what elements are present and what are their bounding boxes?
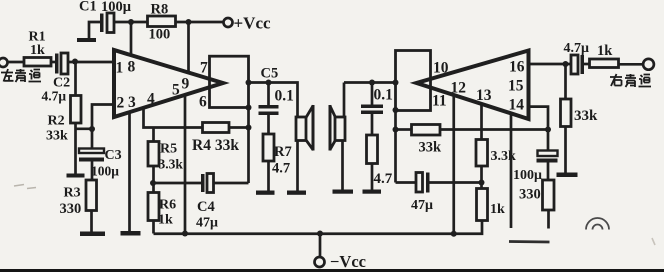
label right channel (Chinese) (610, 74, 651, 87)
svg-text:330: 330 (60, 201, 82, 217)
node C5 tap (266, 80, 272, 86)
svg-text:33k: 33k (419, 140, 443, 156)
resistor R8 100 (148, 2, 176, 43)
wire pin 16 output row (529, 63, 572, 66)
wire -Vcc rail (154, 232, 454, 235)
svg-text:R4 33k: R4 33k (192, 137, 239, 154)
svg-text:R2: R2 (48, 114, 65, 129)
resistor R3 330 (60, 162, 97, 232)
svg-text:100μ: 100μ (91, 164, 119, 179)
wire R1 to C2 (51, 61, 55, 64)
wire C1 to R8 (+Vcc rail) (114, 21, 148, 24)
capacitor C1 100u (79, 0, 132, 33)
U1 pin numbers 1 8 2 3 4 5 9 7 6 (116, 59, 209, 112)
resistor 1k right lower (454, 166, 505, 234)
svg-text:13: 13 (476, 87, 492, 104)
wire pin 12 to -Vcc rail (452, 95, 455, 234)
node -Vcc tap (317, 231, 323, 237)
svg-text:1k: 1k (490, 202, 505, 217)
ground (pin 3) (121, 231, 141, 236)
resistor R6 1k (148, 193, 176, 234)
wire output column (pin7/6 block to C4) (247, 108, 250, 184)
node output/33k junction right (563, 61, 569, 67)
node 33k row junction (393, 127, 399, 133)
ground (R3) (80, 232, 105, 237)
svg-text:1k: 1k (597, 43, 613, 59)
svg-text:R3: R3 (64, 186, 81, 201)
terminal -Vcc (315, 234, 366, 272)
svg-text:100μ: 100μ (101, 0, 132, 15)
ground (R7) (256, 191, 275, 195)
resistor R7 4.7 (263, 115, 292, 191)
svg-text:R6: R6 (159, 198, 176, 213)
svg-text:4.7μ: 4.7μ (42, 89, 67, 104)
node 0.1 tap right (369, 80, 375, 86)
wire R8 to +Vcc terminal (176, 21, 224, 24)
svg-text:−Vcc: −Vcc (330, 252, 366, 271)
node pin14/33k row junction (545, 127, 551, 133)
svg-text:4.7: 4.7 (272, 161, 290, 177)
capacitor 47u right channel (396, 173, 482, 214)
capacitor C5 0.1 (259, 66, 294, 116)
node pin6 corner junction (246, 105, 252, 111)
speaker right channel (330, 105, 345, 190)
svg-text:100: 100 (149, 27, 171, 43)
svg-text:R8: R8 (151, 2, 169, 18)
ground (left speaker) (287, 191, 306, 195)
wire R5 to R6 (152, 166, 155, 193)
terminal right channel output (643, 59, 654, 70)
label left channel (Chinese) (1, 69, 41, 82)
svg-text:33k: 33k (574, 108, 598, 124)
node pin12 rail junction (451, 231, 457, 237)
svg-text:2: 2 (117, 95, 125, 112)
resistor 33k right row (396, 125, 549, 156)
bootstrap block U1 (pins 7/6) (210, 56, 249, 107)
ground (4.7 right) (363, 190, 382, 194)
svg-text:4.7μ: 4.7μ (564, 41, 590, 56)
wire pin9 to +Vcc (187, 22, 190, 73)
svg-text:7: 7 (200, 60, 208, 77)
svg-text:5: 5 (172, 82, 180, 99)
resistor R1 1k (24, 30, 51, 67)
resistor 33k right bias (561, 64, 599, 173)
pencil smudge marks (14, 185, 655, 246)
svg-text:C1: C1 (79, 0, 97, 15)
svg-text:+Vcc: +Vcc (234, 14, 272, 33)
terminal +Vcc (224, 14, 272, 33)
svg-text:R7: R7 (274, 144, 292, 160)
resistor R2 33k (46, 62, 92, 178)
capacitor C2 4.7u (42, 53, 71, 104)
capacitor C3 100u (79, 129, 122, 179)
node 3.3k/1k junction (479, 180, 485, 186)
node R4 right junction (246, 125, 252, 131)
svg-text:0.1: 0.1 (374, 87, 393, 104)
svg-text:33k: 33k (46, 129, 68, 144)
wire pin 4 to R5 / R4 row (144, 108, 203, 128)
wire pin 5 to -Vcc rail (184, 95, 187, 234)
node output junction (246, 80, 252, 86)
op-amp U1 left channel triangle (114, 50, 223, 117)
resistor 4.7 right channel (367, 114, 393, 190)
wire floating rail segment (509, 240, 550, 243)
node junction at pin9 drop (186, 19, 192, 25)
svg-text:4.7: 4.7 (374, 171, 393, 187)
terminal input left channel (0, 58, 8, 67)
svg-text:6: 6 (199, 94, 207, 111)
capacitor 4.7u right output (564, 41, 590, 74)
resistor R5 3.3k (148, 142, 183, 172)
wire pin8 to +Vcc (130, 22, 133, 55)
svg-text:11: 11 (432, 93, 447, 110)
svg-text:14: 14 (509, 97, 525, 114)
svg-text:1k: 1k (158, 213, 173, 228)
node +Vcc junction at pin8 drop (128, 19, 134, 25)
U2 pin numbers 10 11 12 13 14 15 16 (432, 59, 525, 114)
svg-text:0.1: 0.1 (275, 88, 294, 105)
node R5/R6/C4 junction (150, 180, 156, 186)
ground (33k right) (557, 173, 578, 178)
node pin11 corner junction (393, 107, 399, 113)
svg-text:8: 8 (128, 59, 136, 76)
capacitor C4 47u (153, 174, 249, 231)
wire junction to op-amp pins 2,3 (92, 105, 114, 130)
svg-text:9: 9 (182, 76, 190, 93)
svg-text:R5: R5 (160, 142, 177, 157)
svg-text:16: 16 (509, 59, 525, 76)
wire output row to left speaker (249, 83, 298, 118)
ground (right speaker) (333, 190, 354, 194)
capacitor 100u right channel (513, 151, 558, 184)
wire block column down to 47u row (394, 111, 397, 183)
svg-text:1k: 1k (30, 43, 45, 58)
svg-text:C5: C5 (261, 66, 279, 82)
svg-text:330: 330 (519, 187, 541, 203)
wire input to R1 (8, 61, 25, 64)
ground (C1 negative) (77, 22, 100, 42)
svg-text:1: 1 (116, 60, 124, 77)
svg-text:3: 3 (128, 94, 136, 111)
watermark arcs (586, 218, 609, 230)
bottom border line (0, 269, 664, 272)
op-amp U2 right channel triangle (417, 51, 529, 120)
svg-text:4: 4 (147, 91, 155, 108)
resistor 330 right channel (519, 163, 554, 229)
wire C2 to op-amp pin 1 (68, 61, 114, 64)
svg-text:12: 12 (451, 80, 467, 97)
node pin5 rail junction (182, 231, 188, 237)
node input junction (72, 59, 78, 65)
node R2/C3 junction (89, 126, 95, 132)
resistor 3.3k right (476, 104, 516, 166)
svg-text:47μ: 47μ (196, 216, 218, 231)
svg-text:C3: C3 (105, 148, 122, 163)
wire pin 3 to ground (128, 112, 131, 231)
svg-text:3.3k: 3.3k (159, 157, 184, 172)
resistor 1k right output (590, 43, 643, 68)
svg-text:100μ: 100μ (513, 168, 542, 183)
bootstrap block U2 (pins 10/11) (396, 51, 431, 111)
svg-text:15: 15 (508, 78, 524, 95)
capacitor 0.1 right channel (361, 83, 393, 115)
resistor R4 33k (192, 123, 249, 155)
svg-text:47μ: 47μ (411, 198, 433, 213)
svg-text:10: 10 (433, 60, 449, 77)
wire pin 14 column (529, 107, 549, 151)
svg-text:C4: C4 (197, 199, 215, 215)
wire right op-amp output row to right speaker (343, 83, 346, 118)
speaker left channel (296, 105, 313, 191)
node output junction right (393, 80, 399, 86)
